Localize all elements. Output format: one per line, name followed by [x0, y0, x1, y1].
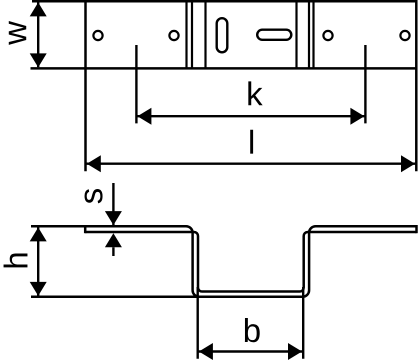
h extension line bottom (web outer surface extended left)	[31, 296, 200, 299]
arrowhead h top	[30, 227, 47, 241]
dimension line h	[37, 228, 39, 296]
bend line 2	[191, 2, 193, 68]
bend line 1	[185, 2, 187, 68]
plate right edge (extends down as extension line for l)	[415, 0, 418, 171]
label l	[250, 130, 253, 154]
extension line b left	[196, 287, 198, 359]
hole 3	[323, 31, 332, 40]
dimension line l	[86, 162, 416, 164]
arrowhead w top	[30, 2, 47, 16]
arrowhead k right	[350, 108, 364, 125]
hole 2	[169, 31, 178, 40]
plate top edge	[32, 0, 417, 2]
extension line k left	[135, 45, 137, 123]
dimension line k	[136, 115, 365, 117]
extension line b right	[302, 287, 304, 359]
dimension line s upper	[112, 183, 114, 225]
extension line k right	[364, 45, 366, 123]
arrowhead w bottom	[30, 53, 47, 67]
arrowhead k left	[137, 108, 151, 125]
bend line 5	[308, 2, 310, 68]
dimension line s lower tail	[112, 247, 114, 256]
arrowhead b left	[199, 343, 213, 360]
sheet right end cap	[415, 225, 418, 233]
profile inner surface	[85, 232, 416, 292]
plate bottom edge	[31, 67, 418, 70]
plate left edge (extends down as extension line for l)	[84, 0, 87, 171]
horizontal slot	[257, 30, 291, 40]
arrowhead b right	[288, 343, 302, 360]
label h	[4, 253, 28, 267]
bend line 6	[312, 2, 314, 68]
arrowhead h bottom	[30, 282, 47, 296]
dimension line w	[37, 3, 39, 68]
arrowhead l right	[401, 155, 415, 172]
dimension line b	[198, 350, 304, 352]
bend line 4	[295, 2, 297, 68]
label b	[245, 318, 260, 342]
profile outer surface (flange top, wall outer, web bottom incl. h extension)	[31, 226, 417, 297]
hole 4	[400, 31, 409, 40]
label k	[248, 81, 262, 105]
hole 1	[93, 31, 102, 40]
bend line 3	[204, 2, 206, 68]
arrowhead s down	[105, 211, 122, 225]
vertical slot	[217, 18, 228, 52]
label s	[85, 189, 103, 203]
label w	[9, 21, 26, 45]
sheet left end cap	[84, 225, 87, 233]
arrowhead l left	[87, 155, 101, 172]
arrowhead s up	[105, 233, 122, 247]
